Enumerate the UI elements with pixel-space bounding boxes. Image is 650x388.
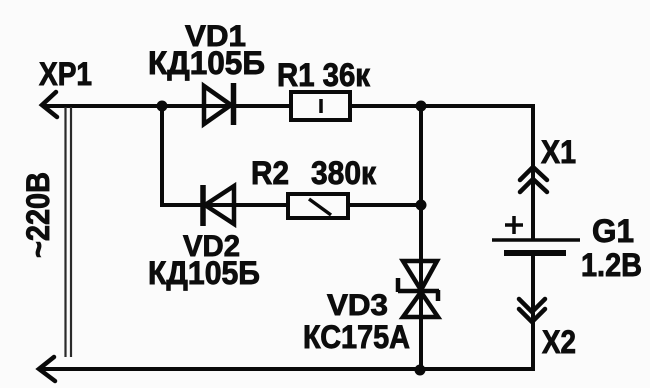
resistor R1 body <box>291 92 350 120</box>
wire right vertical upper <box>531 104 535 239</box>
wire middle horizontal <box>160 203 421 207</box>
svg-text:G1: G1 <box>592 213 634 249</box>
wire bottom horizontal <box>39 367 535 371</box>
svg-text:Х1: Х1 <box>541 134 576 170</box>
zener VD3 center bar with hooks <box>398 278 439 301</box>
svg-text:Х2: Х2 <box>542 324 576 360</box>
battery G1 plus sign <box>505 216 523 234</box>
node junction dot top-left <box>157 101 168 112</box>
svg-text:ХР1: ХР1 <box>39 56 92 92</box>
resistor R2 power mark slash <box>309 199 331 215</box>
wire left branch vertical <box>160 106 164 205</box>
svg-text:380к: 380к <box>311 155 377 191</box>
svg-text:R1 36к: R1 36к <box>277 57 371 93</box>
svg-text:КД105Б: КД105Б <box>148 255 260 291</box>
connector XP1 pin arrow bottom <box>39 357 55 381</box>
connector X2 arrow chevrons down <box>519 299 545 322</box>
zener VD3 bottom triangle <box>403 292 438 317</box>
diode VD1 triangle <box>204 86 231 124</box>
svg-text:КД105Б: КД105Б <box>148 45 265 81</box>
node junction dot bottom <box>415 365 426 376</box>
wire center vertical <box>419 106 423 371</box>
wire right vertical lower <box>531 255 535 371</box>
diode VD2 cathode bar <box>200 185 206 226</box>
diode VD1 cathode bar <box>231 83 237 125</box>
diode VD2 triangle <box>205 186 234 224</box>
node junction dot top-center <box>416 101 427 112</box>
connector XP1 pin arrow top <box>42 92 57 117</box>
resistor R2 body <box>288 194 348 218</box>
connector XP1 boundary double line <box>66 107 72 357</box>
resistor R1 power mark <box>319 99 323 113</box>
svg-text:~220В: ~220В <box>20 172 56 258</box>
connector X1 arrow chevrons up <box>520 167 547 192</box>
svg-text:1.2В: 1.2В <box>581 247 642 283</box>
zener VD3 top triangle <box>403 261 437 290</box>
svg-text:VD3: VD3 <box>327 289 388 322</box>
node junction dot middle <box>416 200 427 211</box>
svg-text:R2: R2 <box>251 155 289 191</box>
svg-text:КС175А: КС175А <box>303 319 410 355</box>
battery G1 short plate <box>504 250 566 256</box>
wire top horizontal <box>42 104 533 108</box>
battery G1 long plate <box>492 238 580 242</box>
